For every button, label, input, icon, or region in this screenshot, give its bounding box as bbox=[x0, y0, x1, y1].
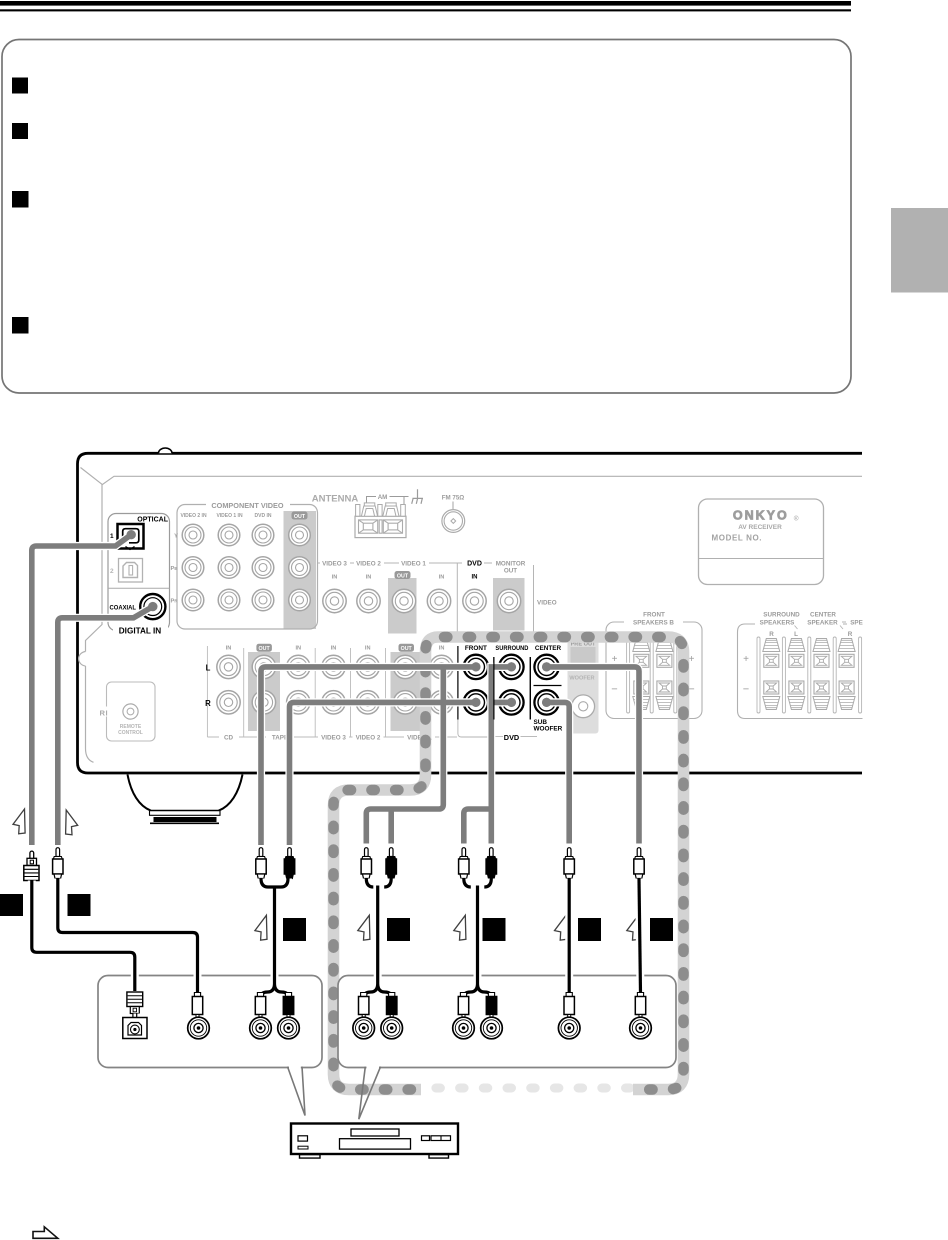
svg-text:IN: IN bbox=[439, 575, 445, 581]
front pair drop bbox=[366, 667, 443, 844]
page-ref arrow (subwoofer ch) bbox=[627, 915, 639, 940]
svg-text:DVD: DVD bbox=[467, 561, 482, 568]
svg-text:®: ® bbox=[794, 515, 799, 523]
coaxial cable bbox=[58, 607, 153, 845]
optical cable bbox=[32, 535, 131, 845]
svg-text:OUT: OUT bbox=[504, 568, 517, 575]
svg-text:CENTER: CENTER bbox=[810, 612, 836, 619]
svg-text:VIDEO 2: VIDEO 2 bbox=[356, 735, 381, 742]
toslink plug lower bbox=[127, 992, 143, 1019]
svg-text:FRONT: FRONT bbox=[465, 645, 487, 652]
svg-text:OUT: OUT bbox=[294, 514, 306, 520]
clip everything right of x=862 bbox=[863, 440, 948, 780]
page tab bbox=[891, 208, 948, 293]
svg-text:−: − bbox=[611, 684, 617, 696]
svg-text:OPTICAL: OPTICAL bbox=[137, 517, 168, 524]
svg-text:VIDEO: VIDEO bbox=[537, 600, 557, 607]
svg-text:VIDEO 2: VIDEO 2 bbox=[356, 561, 381, 568]
svg-text:DVD IN: DVD IN bbox=[255, 513, 272, 519]
svg-text:SURROUND: SURROUND bbox=[495, 645, 528, 652]
svg-text:IN: IN bbox=[332, 575, 338, 581]
coax upper plug bbox=[53, 848, 63, 879]
inner seam lines bbox=[81, 468, 863, 763]
svg-text:1: 1 bbox=[110, 533, 114, 540]
optical jack 2 (gray) bbox=[119, 559, 143, 583]
callout tails bbox=[289, 1066, 301, 1070]
top bump bbox=[159, 448, 173, 453]
page-ref arrow (analog L/R) bbox=[255, 915, 267, 940]
bullet squares bbox=[12, 78, 28, 94]
pair 3 (surround) bbox=[459, 848, 469, 879]
page number square (analog L/R) bbox=[283, 918, 306, 941]
svg-text:AV RECEIVER: AV RECEIVER bbox=[738, 524, 782, 531]
svg-text:DVD: DVD bbox=[504, 733, 519, 742]
page number square (front ch) bbox=[387, 918, 410, 941]
header double rule bbox=[0, 1, 851, 6]
svg-text:MODEL NO.: MODEL NO. bbox=[712, 534, 763, 543]
page number square (subwoofer ch) bbox=[650, 918, 673, 941]
group separators bbox=[207, 646, 385, 737]
svg-text:CD: CD bbox=[224, 735, 234, 742]
right box contents bbox=[359, 993, 369, 1019]
plug dots at active jacks bbox=[127, 530, 552, 707]
svg-text:IN: IN bbox=[331, 646, 337, 652]
svg-text:SPEAKER: SPEAKER bbox=[807, 620, 838, 627]
svg-text:Y: Y bbox=[174, 534, 178, 540]
svg-text:SPEAKERS: SPEAKERS bbox=[760, 620, 795, 627]
left black squares bbox=[0, 894, 23, 916]
pair 2 (front) bbox=[361, 848, 371, 879]
svg-text:CENTER: CENTER bbox=[535, 645, 562, 652]
svg-text:AM: AM bbox=[378, 494, 388, 501]
svg-text:−: − bbox=[743, 684, 749, 696]
svg-text:FM 75Ω: FM 75Ω bbox=[442, 495, 465, 502]
bottom-left arrow glyph bbox=[33, 1227, 58, 1239]
svg-text:DIGITAL IN: DIGITAL IN bbox=[119, 627, 162, 636]
subwoofer wire bbox=[547, 702, 570, 843]
big page arrows at left cables bbox=[13, 809, 25, 834]
svg-text:IN: IN bbox=[296, 646, 302, 652]
gray wires bbox=[32, 535, 639, 845]
svg-text:CONTROL: CONTROL bbox=[118, 730, 143, 736]
center wire bbox=[547, 667, 639, 844]
svg-text:VIDEO 1 IN: VIDEO 1 IN bbox=[216, 513, 243, 519]
svg-text:L: L bbox=[794, 631, 798, 638]
page-ref arrow (surround ch) bbox=[454, 915, 466, 940]
front R to box bbox=[290, 702, 476, 845]
bottom labels bbox=[219, 732, 435, 742]
svg-text:IN: IN bbox=[366, 575, 372, 581]
AM terminal bbox=[355, 516, 406, 537]
svg-text:IN: IN bbox=[365, 646, 371, 652]
toslink plug (upper) bbox=[24, 851, 39, 880]
pair 1 upper plugs bbox=[256, 848, 266, 879]
svg-text:VIDEO 1: VIDEO 1 bbox=[401, 561, 426, 568]
toslink socket bbox=[123, 1018, 147, 1039]
svg-text:OUT: OUT bbox=[259, 646, 271, 652]
optical jack 1 (active) bbox=[118, 524, 144, 549]
svg-text:SPE: SPE bbox=[850, 620, 863, 627]
svg-text:RI: RI bbox=[100, 708, 109, 717]
svg-text:2: 2 bbox=[110, 568, 114, 575]
svg-text:SURROUND: SURROUND bbox=[763, 612, 800, 619]
left device box bbox=[98, 976, 322, 1068]
svg-text:IN: IN bbox=[226, 646, 232, 652]
page-ref arrow (center ch) bbox=[555, 915, 567, 940]
svg-text:WOOFER: WOOFER bbox=[534, 726, 563, 733]
page number square (center ch) bbox=[578, 918, 601, 941]
page number square (surround ch) bbox=[483, 918, 506, 941]
note box bbox=[2, 40, 851, 394]
svg-text:OUT: OUT bbox=[401, 646, 413, 652]
svg-text:R: R bbox=[848, 631, 853, 638]
svg-text:IN: IN bbox=[439, 646, 445, 652]
svg-text:OUT: OUT bbox=[397, 574, 409, 580]
svg-text:FRONT: FRONT bbox=[643, 612, 665, 619]
svg-text:MONITOR: MONITOR bbox=[496, 561, 526, 568]
ground symbol bbox=[412, 489, 423, 504]
svg-text:SPEAKERS B: SPEAKERS B bbox=[633, 620, 674, 627]
coaxial jack (active) bbox=[140, 594, 165, 619]
svg-text:VIDEO 2 IN: VIDEO 2 IN bbox=[180, 513, 207, 519]
svg-text:COAXIAL: COAXIAL bbox=[110, 605, 137, 612]
foot bbox=[128, 775, 243, 811]
svg-text:R: R bbox=[769, 631, 774, 638]
svg-text:R: R bbox=[205, 699, 211, 708]
svg-text:COMPONENT VIDEO: COMPONENT VIDEO bbox=[211, 501, 283, 510]
svg-text:VIDEO 3: VIDEO 3 bbox=[321, 735, 346, 742]
white casings bbox=[32, 535, 639, 845]
front L to box bbox=[261, 667, 476, 845]
svg-text:+: + bbox=[689, 654, 695, 665]
right device box bbox=[338, 976, 676, 1068]
svg-text:ANTENNA: ANTENNA bbox=[312, 494, 359, 505]
svg-text:IN: IN bbox=[472, 575, 478, 581]
jack grid bbox=[217, 655, 240, 678]
page-ref arrow (front ch) bbox=[358, 915, 370, 940]
single RCA in left box bbox=[192, 993, 202, 1019]
panel outline bbox=[78, 453, 863, 773]
svg-text:VIDEO 3: VIDEO 3 bbox=[322, 561, 347, 568]
surround wires bbox=[464, 667, 512, 844]
svg-text:+: + bbox=[743, 654, 749, 665]
center / sub singles bbox=[564, 848, 574, 879]
thin black cables, white casings first bbox=[32, 879, 641, 999]
svg-text:ONKYO: ONKYO bbox=[733, 508, 789, 522]
pair in left box bbox=[255, 993, 265, 1019]
svg-text:WOOFER: WOOFER bbox=[569, 676, 594, 682]
svg-text:L: L bbox=[206, 664, 211, 673]
